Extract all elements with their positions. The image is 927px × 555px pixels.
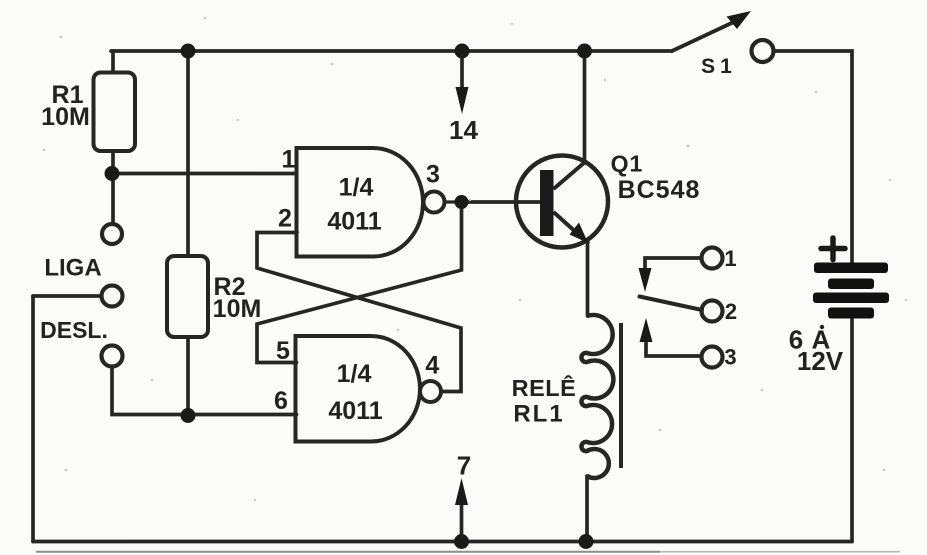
svg-text:5: 5 [276, 337, 290, 365]
svg-text:10M: 10M [213, 295, 262, 323]
svg-text:Q1: Q1 [611, 151, 644, 177]
svg-text:BC548: BC548 [618, 176, 701, 204]
svg-text:4011: 4011 [327, 208, 381, 236]
svg-text:1/4: 1/4 [337, 360, 372, 388]
svg-text:3: 3 [426, 161, 440, 189]
svg-text:7: 7 [457, 451, 471, 481]
svg-text:4: 4 [425, 352, 439, 380]
svg-text:14: 14 [449, 115, 478, 145]
svg-text:10M: 10M [41, 103, 90, 131]
svg-text:12V: 12V [797, 346, 844, 376]
svg-text:RELÊ: RELÊ [512, 374, 577, 401]
svg-text:6: 6 [274, 387, 288, 415]
svg-text:4011: 4011 [328, 397, 382, 425]
svg-text:LIGA: LIGA [44, 255, 101, 282]
svg-text:S1: S1 [701, 55, 737, 78]
svg-text:1: 1 [282, 146, 296, 174]
svg-text:2: 2 [278, 205, 292, 233]
svg-text:1/4: 1/4 [339, 174, 374, 202]
svg-text:3: 3 [724, 345, 736, 370]
svg-text:RL1: RL1 [513, 401, 564, 428]
svg-text:DESL.: DESL. [40, 317, 108, 343]
svg-text:2: 2 [725, 299, 737, 324]
svg-text:1: 1 [724, 246, 736, 271]
